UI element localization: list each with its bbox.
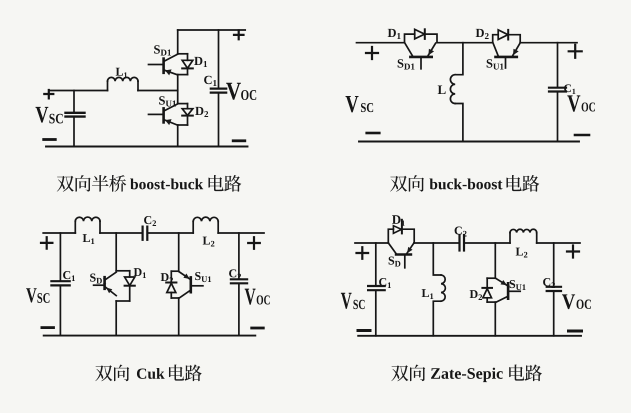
- diode D1 (BR): [388, 220, 414, 243]
- inductor L (TR): [450, 75, 455, 104]
- transistor S_U1 (TR): [493, 43, 520, 68]
- wire BR top bus seg3: [464, 242, 510, 244]
- capacitor C2 output (BR): [547, 243, 561, 336]
- wire BL bottom bus: [44, 335, 256, 337]
- inductor L1 (BL): [75, 217, 100, 233]
- wire TR inductor to bottom bus: [455, 104, 463, 142]
- wire TR bottom bus: [359, 141, 579, 143]
- label D2 (TR): [476, 29, 489, 39]
- wire BL branch S_U1 bottom: [178, 298, 180, 336]
- transistor S_U1 (BL): [179, 272, 203, 298]
- plus terminal BL output: [248, 237, 260, 249]
- label C2 coupling (BL): [144, 216, 156, 226]
- label S_D1: [154, 45, 171, 55]
- plus terminal TR input: [366, 47, 378, 59]
- wire TL branch top (bus to S_D1): [177, 30, 179, 54]
- label V_SC (BL): [26, 288, 49, 303]
- IGBT U-loop S_U1 bottom: [178, 124, 188, 126]
- label S_U1: [159, 96, 176, 106]
- label D2 (BL): [161, 273, 173, 283]
- label L2 (BL): [203, 237, 215, 247]
- capacitor C1 (BR): [368, 243, 385, 336]
- label C2 output (BR): [543, 278, 555, 288]
- wire BR bottom bus: [358, 335, 581, 337]
- diode D1 (TR): [405, 29, 438, 42]
- label V_SC (BR): [341, 293, 365, 309]
- minus terminal BR output: [569, 330, 582, 333]
- IGBT U-loop S_D1 top: [178, 53, 188, 55]
- wire TL branch mid (S_D1 to S_U1): [177, 75, 179, 104]
- IGBT U-loop S_D1 (BL) top: [116, 270, 130, 272]
- minus terminal BR input: [358, 329, 370, 332]
- IGBT U-loop S_U1 (BL) top: [171, 270, 178, 272]
- wire BL branch S_D1 bottom: [115, 301, 117, 336]
- label D2 (BR): [470, 290, 482, 300]
- label L1 (BR): [422, 289, 434, 299]
- capacitor C1 (TL): [211, 30, 226, 147]
- label V_OC (TR): [567, 95, 595, 111]
- label V_OC (BL): [245, 289, 270, 305]
- capacitor C2 coupling (BR): [460, 235, 465, 251]
- label V_SC (TR): [346, 96, 374, 112]
- wire BR top bus seg2: [414, 242, 459, 244]
- label L1 (BL): [83, 234, 95, 244]
- capacitor C1 (TR): [549, 43, 566, 141]
- wire BR branch S_U1 top: [494, 243, 496, 278]
- minus terminal TR output: [575, 134, 589, 137]
- label C1 (BR): [379, 278, 391, 288]
- minus terminal TR input: [367, 132, 380, 135]
- label S_U1 (BL): [195, 272, 211, 282]
- wire BL branch S_U1 top: [178, 233, 180, 271]
- label C2 output (BL): [229, 269, 241, 279]
- label S_D1 (BR): [389, 257, 401, 267]
- label C2 coupling (BR): [455, 227, 467, 237]
- diode D2: [182, 104, 193, 125]
- label S_D1 (BL): [90, 274, 106, 284]
- wire BR top bus seg1: [355, 242, 388, 244]
- wire BR branch S_U1 bottom: [494, 302, 496, 336]
- label D1 (BL): [134, 268, 146, 278]
- label D1 (BR): [392, 215, 405, 226]
- wire BR branch L1 bottom: [433, 301, 441, 336]
- label D1 (TR): [388, 29, 401, 39]
- capacitor C2 coupling (BL): [143, 227, 148, 240]
- wire TL top bus: [178, 29, 246, 31]
- wire TL bottom bus: [46, 146, 248, 148]
- wire BL branch S_D1 top: [115, 233, 117, 271]
- plus terminal BL input: [41, 237, 52, 248]
- transistor S_U1: [149, 104, 178, 125]
- label V_OC (BR): [562, 294, 591, 309]
- transistor S_D1 (TR): [405, 43, 436, 69]
- wire TR top bus mid: [437, 42, 493, 44]
- caption TR: bidirectional buck-boost circuit: [390, 175, 539, 192]
- label S_D1 (TR): [398, 59, 415, 69]
- minus terminal BL input: [42, 326, 54, 329]
- label D1: [194, 57, 207, 67]
- label C1 (TL): [204, 76, 216, 86]
- transistor S_D1: [149, 54, 178, 75]
- minus terminal BL output: [252, 327, 264, 330]
- wire TL mid (L1 to half-bridge node): [138, 90, 178, 92]
- inductor L2 (BR): [510, 229, 537, 243]
- IGBT U-loop S_D1 (BL) bottom: [116, 300, 130, 302]
- capacitor C1 (BL): [51, 233, 69, 336]
- caption TL: bidirectional half-bridge boost-buck circuit: [57, 175, 242, 192]
- wire TL input top (V_SC to L1): [49, 90, 108, 92]
- wire TL branch bottom (S_U1 to bus): [177, 125, 179, 147]
- plus terminal BR input: [357, 247, 369, 259]
- label L (TR): [438, 85, 446, 94]
- inductor L1: [108, 77, 139, 90]
- diode D2 (BL): [166, 271, 176, 298]
- diode D2 (TR): [493, 30, 521, 43]
- wire BR branch L1 top: [433, 243, 441, 275]
- IGBT U-loop S_U1 (BR) top: [487, 277, 495, 279]
- IGBT U-loop S_U1 top: [178, 103, 188, 105]
- label L1: [116, 68, 127, 78]
- diode D1: [182, 54, 193, 75]
- capacitor C2 output (BL): [231, 233, 247, 336]
- transistor S_D1 (BR): [389, 243, 414, 267]
- label S_U1 (BR): [510, 280, 526, 290]
- caption BR: bidirectional Zate-Sepic circuit: [391, 365, 542, 383]
- label L2 (BR): [516, 248, 528, 258]
- inductor L2 (BL): [193, 217, 218, 233]
- wire BL top bus seg2: [100, 232, 142, 234]
- inductor L1 (BR): [441, 275, 445, 301]
- transistor S_U1 (BR): [496, 278, 520, 302]
- plus terminal TR output: [569, 45, 582, 58]
- wire BR top bus seg4: [537, 242, 580, 244]
- wire TR top bus left: [357, 42, 405, 44]
- caption BL: bidirectional Cuk circuit: [95, 365, 202, 382]
- minus terminal TL input: [44, 138, 56, 141]
- label D2: [195, 107, 208, 117]
- label S_U1 (TR): [487, 59, 504, 69]
- wire BL top bus seg1: [43, 232, 75, 234]
- plus terminal TL output top: [234, 30, 244, 39]
- transistor S_D1 (BL): [94, 272, 117, 295]
- diode D1 (BL): [125, 271, 135, 301]
- IGBT U-loop S_U1 (BR) bottom: [487, 301, 495, 303]
- wire TR top bus right: [520, 42, 577, 44]
- label V_OC (TL): [226, 83, 256, 100]
- wire BL top bus seg3: [148, 232, 194, 234]
- plus terminal BR output: [567, 246, 579, 258]
- wire BL top bus seg4: [218, 232, 264, 234]
- label V_SC (TL): [36, 107, 63, 124]
- label C1 (TR): [564, 84, 575, 94]
- IGBT U-loop S_U1 (BL) bottom: [171, 297, 178, 299]
- IGBT U-loop S_D1 bottom: [178, 74, 188, 76]
- wire TR mid node to inductor: [455, 43, 463, 75]
- plus terminal TL input: [44, 90, 53, 98]
- label C1 (BL): [63, 271, 75, 281]
- diode D2 (BR): [482, 278, 492, 302]
- minus terminal TL output: [233, 139, 245, 142]
- battery V_SC source: [66, 91, 85, 147]
